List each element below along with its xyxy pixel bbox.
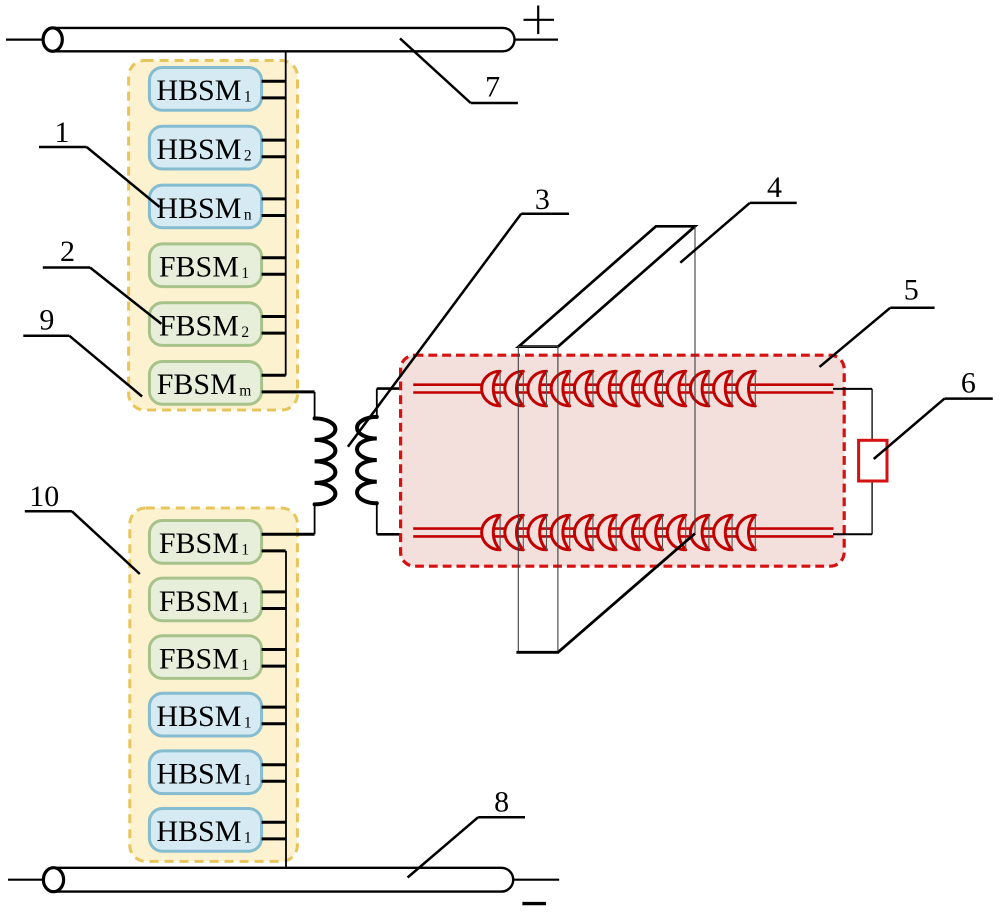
insulator shed bottom-3	[528, 515, 546, 550]
insulator shed bottom-7	[621, 515, 639, 550]
barrier plate 4: top face	[519, 226, 695, 346]
insulator shed top-3	[528, 371, 547, 406]
insulator shed top-5	[574, 371, 593, 406]
wire: secondary top to test box	[377, 387, 416, 390]
barrier plate 4: bottom front edge	[516, 651, 559, 654]
svg-text:4: 4	[767, 171, 782, 204]
svg-text:7: 7	[485, 71, 500, 104]
svg-text:HBSM1: HBSM1	[156, 74, 251, 107]
wire: secondary bottom lead	[376, 503, 378, 534]
inductor coil L-secondary (right winding of 3)	[357, 417, 377, 503]
insulator shed top-12	[737, 371, 756, 406]
lower arm group box (10)	[130, 508, 298, 861]
insulator shed top-2	[505, 371, 524, 406]
barrier plate 4: back edge	[694, 226, 696, 533]
insulator string bottom: core rod	[413, 529, 833, 537]
insulator shed bottom-4	[551, 515, 569, 550]
label 2 leader	[43, 268, 162, 324]
submodule FBSM1 (U4)	[149, 244, 285, 287]
submodule HBSM1 (L4)	[149, 693, 285, 736]
submodule FBSM1 (L2)	[149, 578, 285, 621]
insulator shed bottom-9	[667, 515, 685, 550]
insulator shed bottom-12	[737, 515, 755, 550]
svg-text:FBSM1: FBSM1	[159, 585, 249, 618]
svg-text:HBSM1: HBSM1	[156, 758, 251, 791]
wire: primary top lead	[314, 392, 316, 419]
insulator shed top-8	[644, 371, 663, 406]
insulator shed top-7	[621, 371, 640, 406]
insulator shed top-4	[551, 371, 570, 406]
conductor 8 (negative DC bus cylinder)	[8, 868, 559, 892]
label 9 leader	[23, 336, 142, 397]
insulator shed bottom-10	[690, 515, 708, 550]
label 5 leader	[820, 308, 935, 367]
minus terminal	[522, 902, 546, 905]
svg-text:FBSM2: FBSM2	[159, 309, 249, 342]
svg-text:2: 2	[60, 235, 75, 268]
upper arm group box (9)	[129, 61, 298, 411]
submodule HBSMn (U3)	[149, 185, 285, 228]
svg-text:FBSM1: FBSM1	[159, 643, 249, 676]
submodule HBSM2 (U2)	[149, 126, 285, 169]
label 10 leader	[25, 511, 140, 574]
insulator string top: core rod	[413, 385, 833, 393]
label 8 leader	[408, 817, 525, 877]
insulator shed top-10	[690, 371, 709, 406]
wire: secondary top lead	[376, 389, 378, 417]
resistor 6	[859, 440, 887, 481]
insulator shed top-11	[714, 371, 733, 406]
svg-text:6: 6	[961, 367, 976, 400]
insulator shed bottom-5	[574, 515, 592, 550]
svg-text:HBSM1: HBSM1	[156, 815, 251, 848]
label 1 leader	[39, 147, 160, 207]
insulator shed bottom-2	[505, 515, 523, 550]
svg-text:HBSM1: HBSM1	[156, 700, 251, 733]
test object box 5 (red dashed)	[401, 355, 845, 566]
wire: primary bottom lead	[314, 504, 316, 534]
insulator shed top-6	[598, 371, 617, 406]
barrier plate 4: bottom side edge	[558, 534, 695, 653]
submodule HBSM1 (L5)	[149, 751, 285, 794]
conductor 7 (positive DC bus cylinder)	[6, 28, 558, 51]
insulator shed top-9	[667, 371, 686, 406]
svg-text:HBSMn: HBSMn	[156, 192, 252, 225]
label 4 leader	[680, 203, 796, 263]
submodule FBSM2 (U5)	[149, 303, 285, 346]
svg-text:FBSM1: FBSM1	[159, 251, 249, 284]
insulator shed top-1	[482, 371, 501, 406]
inductor coil L-primary (left winding of 3)	[315, 418, 336, 504]
insulator shed bottom-6	[598, 515, 616, 550]
barrier plate 4: front face	[518, 347, 558, 653]
label 3 leader	[348, 214, 569, 447]
submodule HBSM1 (U1)	[149, 68, 285, 111]
svg-text:9: 9	[39, 303, 54, 336]
svg-text:FBSM1: FBSM1	[159, 527, 249, 560]
insulator shed bottom-11	[714, 515, 732, 550]
plus terminal	[524, 6, 555, 35]
submodule FBSM1 (L3)	[149, 636, 285, 679]
svg-text:HBSM2: HBSM2	[156, 133, 251, 166]
label 7 leader	[400, 38, 518, 103]
svg-text:10: 10	[29, 480, 59, 513]
insulator shed bottom-1	[482, 515, 500, 550]
wire: rods to resistor 6	[833, 388, 872, 390]
wire: secondary bottom to test box	[377, 533, 416, 536]
submodule FBSMm (U6)	[149, 362, 314, 405]
svg-text:1: 1	[55, 116, 70, 149]
insulator shed bottom-8	[644, 515, 662, 550]
svg-text:5: 5	[904, 274, 919, 307]
label 6 leader	[874, 399, 993, 459]
submodule HBSM1 (L6)	[149, 809, 285, 852]
svg-text:3: 3	[535, 183, 550, 216]
wire: upper arm series bus	[285, 51, 287, 375]
submodule FBSM1 (L1)	[149, 521, 314, 564]
wire: lower arm series bus	[285, 551, 287, 868]
svg-text:8: 8	[494, 786, 509, 819]
